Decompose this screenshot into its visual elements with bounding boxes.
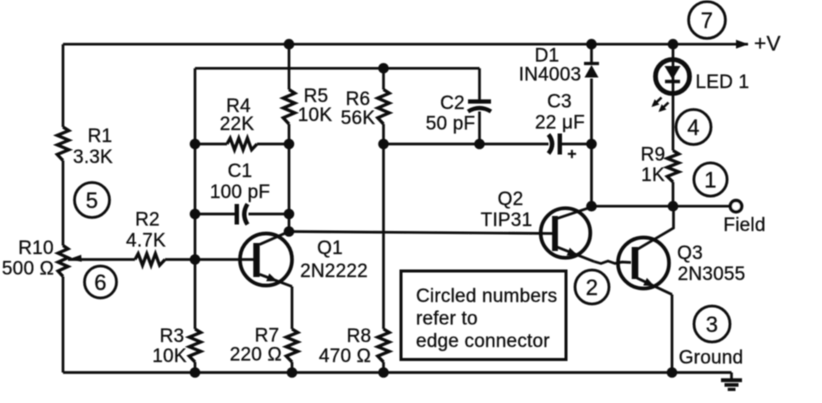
wire C1 row bbox=[195, 213, 236, 216]
svg-text:5: 5 bbox=[86, 188, 98, 213]
junction dot R3/bottom rail bbox=[190, 367, 201, 378]
transistor Q1 emitter arrow bbox=[266, 273, 277, 281]
svg-text:100 pF: 100 pF bbox=[210, 182, 270, 203]
svg-text:4.7K: 4.7K bbox=[126, 231, 166, 252]
svg-text:R7: R7 bbox=[255, 326, 280, 347]
svg-text:C3: C3 bbox=[547, 92, 572, 113]
wire R6 vertical bbox=[382, 68, 385, 89]
wire R5 vertical lower bbox=[288, 124, 291, 232]
svg-text:10K: 10K bbox=[298, 105, 333, 126]
transistor Q2 emitter arrow bbox=[567, 248, 578, 256]
junction dot Q2 collector/field row bbox=[586, 201, 597, 212]
wire Q2 emitter to Q3 base bbox=[594, 261, 631, 264]
wire C2-C3 row bbox=[384, 143, 549, 146]
wire R4 row bbox=[195, 143, 227, 146]
svg-text:4: 4 bbox=[687, 115, 699, 140]
wire Q1 collector to Q2 base bbox=[289, 232, 553, 234]
LED 1 light arrow lower bbox=[660, 103, 669, 111]
junction dot R8/bottom rail bbox=[378, 367, 389, 378]
wire left rail bbox=[62, 44, 65, 127]
capacitor C1 bbox=[235, 204, 239, 225]
wire R9 to field-row junction bbox=[672, 182, 675, 206]
junction dot C3/D1 line bbox=[586, 139, 597, 150]
junction dot Q1 collector bbox=[284, 226, 295, 237]
capacitor C2 bbox=[468, 99, 491, 103]
wire bottom ground rail bbox=[63, 371, 732, 374]
svg-text:10K: 10K bbox=[152, 346, 187, 367]
junction dot R6/second rail bbox=[378, 63, 389, 74]
node 6 (edge connector) bbox=[85, 266, 117, 298]
svg-text:1K: 1K bbox=[641, 165, 665, 186]
svg-text:22 μF: 22 μF bbox=[535, 113, 585, 134]
svg-text:3.3K: 3.3K bbox=[73, 147, 113, 168]
resistor R9 bbox=[667, 151, 679, 183]
svg-text:C2: C2 bbox=[440, 93, 465, 114]
svg-text:R10: R10 bbox=[18, 238, 53, 259]
LED 1 circle bbox=[656, 60, 690, 94]
wire D1 vertical upper bbox=[590, 44, 593, 62]
svg-text:Ground: Ground bbox=[679, 348, 744, 369]
wire LED vertical bbox=[672, 44, 675, 150]
node 2 (edge connector) bbox=[575, 270, 609, 304]
svg-text:1: 1 bbox=[704, 167, 716, 192]
diode D1 bbox=[584, 62, 599, 65]
svg-text:220 Ω: 220 Ω bbox=[230, 345, 282, 366]
svg-text:D1: D1 bbox=[535, 46, 560, 67]
svg-text:+V: +V bbox=[754, 33, 781, 56]
svg-text:R1: R1 bbox=[88, 126, 113, 147]
svg-text:R5: R5 bbox=[304, 86, 329, 107]
wire C2 stub lower bbox=[478, 112, 481, 145]
transistor Q3 emitter arrow bbox=[643, 278, 654, 286]
Field terminal circle bbox=[730, 201, 741, 212]
node 4 (edge connector) bbox=[676, 110, 711, 145]
transistor Q1 circle bbox=[240, 234, 292, 286]
transistor Q2 circle bbox=[541, 208, 591, 258]
svg-text:TIP31: TIP31 bbox=[481, 210, 533, 231]
LED 1 cathode bar bbox=[665, 80, 680, 83]
resistor R7 bbox=[286, 329, 298, 362]
svg-text:Field: Field bbox=[723, 215, 765, 236]
transistor Q3 circle bbox=[618, 238, 669, 289]
transistor Q1 emitter line bbox=[260, 274, 293, 286]
wire vertical x=195 bbox=[194, 68, 197, 329]
junction dot LED/top rail bbox=[668, 39, 679, 50]
svg-text:3: 3 bbox=[706, 312, 718, 337]
wire Q1 base row bbox=[68, 258, 135, 261]
svg-text:R9: R9 bbox=[641, 145, 666, 166]
svg-text:6: 6 bbox=[94, 270, 106, 295]
wiper arrow R10 bbox=[69, 255, 82, 262]
svg-text:C1: C1 bbox=[228, 161, 253, 182]
wire C2 stub upper bbox=[478, 68, 481, 101]
transistor Q3 collector line bbox=[637, 206, 674, 249]
svg-text:R3: R3 bbox=[160, 326, 185, 347]
resistor R8 bbox=[378, 329, 390, 362]
node 7 (edge connector) bbox=[689, 2, 726, 39]
transistor Q1 base bar bbox=[253, 243, 259, 277]
transistor Q1 collector line bbox=[260, 232, 290, 245]
junction dot R6/C2 row bbox=[378, 139, 389, 150]
resistor R6 bbox=[378, 90, 390, 125]
svg-text:R2: R2 bbox=[135, 210, 160, 231]
junction dot R7/bottom rail bbox=[287, 367, 298, 378]
wire Q3 emitter vertical bbox=[671, 295, 674, 373]
svg-text:+: + bbox=[567, 146, 577, 163]
svg-text:2N3055: 2N3055 bbox=[678, 264, 746, 285]
resistor R4 bbox=[227, 138, 257, 150]
junction dot C2 bottom bbox=[474, 139, 485, 150]
resistor R2 bbox=[135, 254, 165, 266]
wire field row bbox=[592, 205, 731, 208]
node 1 (edge connector) bbox=[694, 163, 727, 196]
junction dot D1/top rail bbox=[586, 39, 597, 50]
svg-text:2N2222: 2N2222 bbox=[300, 261, 368, 282]
junction dot base row x=195 bbox=[190, 254, 201, 265]
LED 1 triangle bbox=[665, 66, 681, 80]
svg-text:IN4003: IN4003 bbox=[519, 65, 581, 86]
transistor Q2 emitter line bbox=[557, 247, 594, 262]
svg-text:edge connector: edge connector bbox=[416, 331, 550, 352]
wire second top rail bbox=[195, 67, 480, 70]
svg-text:56K: 56K bbox=[341, 108, 376, 129]
resistor R1 bbox=[57, 127, 69, 161]
transistor Q3 emitter line bbox=[637, 278, 672, 295]
svg-text:500 Ω: 500 Ω bbox=[2, 259, 54, 280]
node 3 (edge connector) bbox=[694, 306, 730, 342]
svg-text:2: 2 bbox=[586, 275, 598, 300]
svg-text:Circled numbers: Circled numbers bbox=[416, 286, 557, 307]
ground symbol bbox=[721, 378, 742, 382]
wire D1 vertical lower bbox=[590, 79, 593, 207]
junction dot R4 row right bbox=[284, 139, 295, 150]
svg-text:470 Ω: 470 Ω bbox=[319, 346, 371, 367]
junction dot R4 row left bbox=[190, 139, 201, 150]
transistor Q2 collector line bbox=[557, 207, 592, 219]
svg-text:Q1: Q1 bbox=[317, 238, 343, 259]
junction dot C1 row right bbox=[284, 209, 295, 220]
wire top +V rail bbox=[63, 43, 748, 46]
resistor R10 (pot) bbox=[58, 246, 68, 277]
resistor R5 bbox=[283, 90, 295, 125]
svg-text:22K: 22K bbox=[220, 114, 255, 135]
wire Q1 emitter vertical bbox=[291, 287, 294, 330]
svg-text:7: 7 bbox=[701, 8, 713, 33]
svg-text:Q3: Q3 bbox=[677, 243, 703, 264]
node 5 (edge connector) bbox=[75, 183, 110, 218]
svg-text:LED 1: LED 1 bbox=[696, 72, 750, 93]
svg-text:50 pF: 50 pF bbox=[426, 114, 476, 135]
svg-text:refer to: refer to bbox=[416, 309, 478, 330]
junction dot Q3 collector/field row bbox=[668, 201, 679, 212]
note box bbox=[401, 271, 566, 360]
svg-text:Q2: Q2 bbox=[498, 189, 524, 210]
junction dot R5/top rail bbox=[284, 39, 295, 50]
transistor Q2 base bar bbox=[552, 216, 558, 251]
svg-text:R8: R8 bbox=[347, 326, 372, 347]
LED 1 light arrow upper bbox=[653, 98, 662, 106]
capacitor C3 bbox=[549, 135, 553, 154]
svg-text:R6: R6 bbox=[346, 89, 371, 110]
resistor R3 bbox=[189, 329, 201, 362]
junction dot Q3 emitter/bottom rail bbox=[667, 367, 678, 378]
wire R8 to bottom rail bbox=[382, 362, 385, 373]
wire R5 vertical upper bbox=[288, 44, 291, 89]
+V arrowhead and label bbox=[736, 40, 749, 49]
wire ground stub bbox=[730, 373, 733, 381]
transistor Q3 base bar bbox=[632, 247, 639, 279]
junction dot C1 row left bbox=[190, 209, 201, 220]
